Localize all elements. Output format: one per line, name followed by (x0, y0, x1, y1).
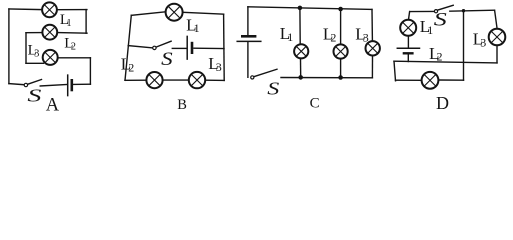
switch S of B (153, 41, 171, 49)
wire C right vertical upper (371, 9, 373, 40)
lamp L1 of C (294, 44, 308, 58)
svg-text:2: 2 (330, 30, 336, 44)
svg-text:C: C (310, 96, 320, 112)
wire C right vertical lower (371, 57, 373, 78)
wire D top left (410, 10, 434, 12)
wire A inner left vertical (25, 33, 27, 64)
wire B between lamps (164, 79, 188, 81)
wire C branch1 upper (299, 8, 301, 43)
wire C branch2 upper (340, 9, 342, 43)
switch S of A (24, 80, 41, 87)
battery of A (68, 75, 72, 96)
wire C branch2 lower (340, 60, 342, 78)
svg-text:2: 2 (437, 50, 443, 64)
svg-text:3: 3 (480, 36, 486, 50)
battery of D (397, 48, 419, 53)
wire A L2 left (26, 32, 42, 34)
svg-text:3: 3 (34, 48, 39, 59)
battery of C (237, 36, 261, 41)
wire A right vertical lower (89, 58, 91, 84)
lamp L3 of B (189, 72, 205, 88)
wire A bottom left (9, 84, 24, 85)
lamp L1 of B (166, 4, 183, 21)
svg-text:1: 1 (287, 30, 293, 44)
wire D right vertical upper (495, 10, 497, 28)
wire B bottom right (206, 79, 224, 81)
wire D bottom right (439, 79, 464, 81)
wire B left vertical (125, 15, 131, 80)
wire C left vertical lower (247, 43, 249, 78)
switch S of D (434, 5, 453, 12)
svg-text:2: 2 (128, 61, 134, 75)
svg-text:B: B (177, 97, 187, 113)
wire D lamp3 to rail (496, 46, 498, 63)
wire C left vertical upper (247, 7, 249, 35)
wire D inner vertical (463, 11, 465, 81)
lamp L3 (43, 50, 58, 65)
svg-text:1: 1 (194, 21, 200, 35)
wire D battery to rail (407, 54, 409, 61)
battery of B (187, 36, 192, 59)
wire B right vertical (223, 14, 226, 80)
switch S of C (251, 69, 277, 79)
node top L2 (338, 7, 343, 12)
svg-text:S: S (161, 49, 173, 70)
svg-text:A: A (46, 96, 60, 116)
lamp L1 of D (400, 20, 416, 36)
wire A L2 right (58, 32, 87, 35)
lamp L3 of D (489, 29, 506, 46)
wire D left vertical upper (409, 12, 410, 19)
svg-text:S: S (27, 86, 41, 106)
wire A L3 right (58, 57, 90, 59)
lamp L3 of C (366, 41, 380, 55)
wire B middle left (128, 46, 152, 48)
wire D lower-left vertical (394, 61, 396, 81)
svg-text:1: 1 (66, 18, 71, 29)
wire D middle rail (394, 61, 497, 63)
wire D lamp1 to battery (407, 37, 409, 48)
wire A top-left (9, 8, 42, 11)
wire C branch1 lower (300, 59, 302, 77)
svg-text:D: D (436, 93, 449, 113)
wire B bottom left (125, 79, 145, 81)
wire A battery to right (73, 83, 90, 85)
node top L1 (298, 6, 303, 11)
svg-text:2: 2 (71, 41, 76, 52)
lamp L2 of B (146, 72, 162, 88)
wire B top right (183, 12, 223, 14)
wire D top right (450, 10, 495, 11)
wire A switch to battery (40, 85, 67, 87)
svg-text:3: 3 (363, 31, 369, 45)
svg-text:S: S (434, 9, 448, 30)
lamp L1 (42, 2, 57, 17)
wire A left vertical (8, 9, 10, 84)
node bottom L2 (338, 75, 343, 80)
lamp L2 of D (422, 72, 439, 89)
node D top junction (462, 9, 465, 12)
wire B switch to battery (172, 47, 186, 49)
lamp L2 (42, 25, 57, 40)
wire A L3 left (26, 62, 44, 64)
node bottom L1 (298, 75, 303, 80)
svg-text:1: 1 (427, 23, 433, 37)
lamp L2 of C (334, 44, 348, 58)
wire C top (248, 7, 372, 10)
svg-text:S: S (267, 79, 279, 99)
wire C bottom (281, 77, 372, 79)
svg-text:3: 3 (216, 60, 222, 74)
wire A right vertical upper (85, 10, 87, 34)
wire B top left (131, 12, 165, 15)
wire A L1 right (58, 9, 87, 11)
wire D bottom left (396, 79, 422, 81)
wire B battery to right (194, 47, 224, 49)
